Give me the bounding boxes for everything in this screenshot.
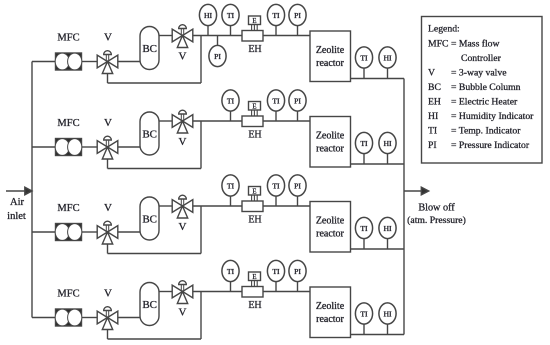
svg-text:E: E xyxy=(252,103,256,110)
svg-text:reactor: reactor xyxy=(316,58,344,69)
svg-text:HI: HI xyxy=(383,224,392,233)
svg-text:Legend:: Legend: xyxy=(428,24,460,35)
svg-text:TI: TI xyxy=(360,139,368,148)
svg-text:V: V xyxy=(104,117,112,129)
svg-text:BC: BC xyxy=(142,129,157,141)
svg-text:PI: PI xyxy=(294,11,301,20)
svg-text:HI: HI xyxy=(383,309,392,318)
svg-text:Air: Air xyxy=(10,197,25,208)
svg-text:TI: TI xyxy=(227,181,235,190)
svg-text:MFC: MFC xyxy=(57,289,79,300)
svg-text:TI: TI xyxy=(272,11,280,20)
svg-text:HI: HI xyxy=(383,53,392,62)
svg-text:V: V xyxy=(179,136,187,148)
svg-text:reactor: reactor xyxy=(316,144,344,155)
svg-text:EH: EH xyxy=(248,215,261,226)
svg-text:V: V xyxy=(428,68,435,79)
svg-text:MFC: MFC xyxy=(57,118,79,129)
svg-text:BC: BC xyxy=(142,43,157,55)
svg-text:EH: EH xyxy=(248,44,261,55)
svg-text:HI: HI xyxy=(428,111,438,122)
svg-text:= Mass flow: = Mass flow xyxy=(451,38,500,49)
svg-text:V: V xyxy=(179,51,187,63)
svg-text:TI: TI xyxy=(227,96,235,105)
svg-text:TI: TI xyxy=(360,53,368,62)
svg-text:reactor: reactor xyxy=(316,229,344,240)
svg-text:TI: TI xyxy=(428,126,437,137)
svg-text:TI: TI xyxy=(360,224,368,233)
svg-text:PI: PI xyxy=(428,140,437,151)
svg-text:inlet: inlet xyxy=(7,211,26,222)
svg-text:HI: HI xyxy=(204,11,213,20)
svg-text:= 3-way valve: = 3-way valve xyxy=(451,68,507,79)
svg-text:V: V xyxy=(104,32,112,44)
svg-text:reactor: reactor xyxy=(316,314,344,325)
svg-text:Zeolite: Zeolite xyxy=(316,301,345,312)
svg-text:PI: PI xyxy=(294,267,301,276)
svg-text:HI: HI xyxy=(383,139,392,148)
svg-text:= Bubble Column: = Bubble Column xyxy=(451,82,521,93)
svg-text:Blow off: Blow off xyxy=(418,203,455,214)
svg-text:PI: PI xyxy=(294,96,301,105)
svg-text:EH: EH xyxy=(428,97,441,108)
svg-text:MFC: MFC xyxy=(57,33,79,44)
svg-text:V: V xyxy=(104,288,112,300)
svg-text:TI: TI xyxy=(227,11,235,20)
svg-text:E: E xyxy=(252,274,256,281)
svg-text:V: V xyxy=(179,307,187,319)
svg-text:TI: TI xyxy=(272,181,280,190)
svg-text:= Humidity Indicator: = Humidity Indicator xyxy=(451,111,534,122)
svg-text:= Temp. Indicator: = Temp. Indicator xyxy=(451,126,521,137)
svg-text:TI: TI xyxy=(272,267,280,276)
svg-text:Controller: Controller xyxy=(461,53,502,64)
svg-text:E: E xyxy=(252,18,256,25)
svg-text:BC: BC xyxy=(142,214,157,226)
svg-text:BC: BC xyxy=(428,82,441,93)
svg-text:EH: EH xyxy=(248,300,261,311)
svg-text:MFC: MFC xyxy=(428,38,448,49)
svg-text:BC: BC xyxy=(142,299,157,311)
svg-text:Zeolite: Zeolite xyxy=(316,45,345,56)
svg-text:TI: TI xyxy=(360,309,368,318)
svg-text:Zeolite: Zeolite xyxy=(316,131,345,142)
svg-text:Zeolite: Zeolite xyxy=(316,216,345,227)
svg-text:V: V xyxy=(179,221,187,233)
svg-text:TI: TI xyxy=(272,96,280,105)
svg-text:EH: EH xyxy=(248,130,261,141)
svg-text:= Electric Heater: = Electric Heater xyxy=(451,97,518,108)
svg-text:PI: PI xyxy=(214,52,221,61)
svg-text:E: E xyxy=(252,188,256,195)
svg-text:TI: TI xyxy=(227,267,235,276)
svg-text:= Pressure Indicator: = Pressure Indicator xyxy=(451,140,530,151)
svg-text:PI: PI xyxy=(294,181,301,190)
svg-text:V: V xyxy=(104,202,112,214)
svg-text:MFC: MFC xyxy=(57,203,79,214)
svg-text:(atm. Pressure): (atm. Pressure) xyxy=(407,215,466,226)
